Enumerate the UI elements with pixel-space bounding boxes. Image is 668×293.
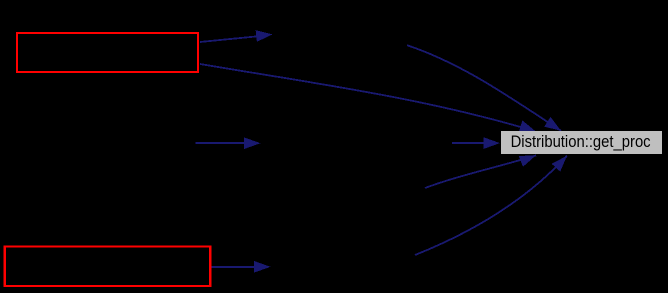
wire: edge E6 line from hidden node row 3 to Distribution::get_proc bottom edge <box>425 155 536 188</box>
wire: edge E2 long curve from caller box 1 to Distribution::get_proc top edge <box>200 64 536 132</box>
wire: edge E1 from caller box 1 to hidden mid node 1 <box>200 30 273 42</box>
wire: edge E8 curve from hidden mid node 3 to Distribution::get_proc bottom edge <box>415 156 567 255</box>
wire: edge E4 horizontal arrow middle-left row <box>195 137 260 149</box>
caller box 1 (red, truncated node) <box>17 33 198 72</box>
wire: edge E7 from caller box 2 to hidden mid node 3 <box>212 261 271 273</box>
node Distribution::get_proc (current node, grey) <box>501 131 662 154</box>
wire: edge E3 curve from hidden mid node 1 to Distribution::get_proc top edge <box>407 45 561 131</box>
wire: edge E5 horizontal arrow into Distribution::get_proc left edge <box>452 137 500 149</box>
svg-text:Distribution::get_proc: Distribution::get_proc <box>511 133 651 151</box>
caller box 2 (red, truncated node) <box>5 247 211 286</box>
